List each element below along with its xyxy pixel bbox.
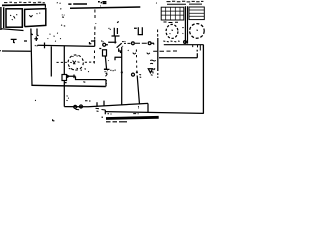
bus wire <box>70 7 140 8</box>
bottom wire <box>105 112 204 114</box>
wire <box>164 44 204 46</box>
wire step <box>90 40 95 46</box>
tube V2 envelope <box>68 55 83 70</box>
junction tick <box>64 82 66 84</box>
electrode V1 top circle <box>103 43 106 46</box>
terminal rail <box>2 4 46 7</box>
resistor R1 lower wire <box>63 81 65 107</box>
electrode V1 marks <box>106 61 109 85</box>
wire stub <box>102 110 106 117</box>
wire <box>0 50 31 53</box>
contact circle <box>132 42 135 45</box>
fuse table box A <box>161 7 184 20</box>
wire arrow <box>67 75 76 79</box>
header label text <box>167 1 204 4</box>
electrode V1 stem <box>104 56 110 69</box>
plug pin foot <box>31 34 33 35</box>
contact cup <box>133 53 136 54</box>
corner mark <box>53 119 55 121</box>
connector block X2 <box>25 9 46 27</box>
ground symbol <box>11 39 17 42</box>
terminal circle <box>80 105 83 108</box>
dash-dot heater wire <box>57 61 95 63</box>
electrode column dotted <box>135 50 138 73</box>
switch S1 <box>108 42 122 52</box>
dashed line under bar <box>106 121 127 123</box>
contact circle <box>132 73 135 76</box>
marks below box A <box>164 21 179 24</box>
label F-240 <box>98 2 106 4</box>
electrode column <box>137 76 139 105</box>
divider wire <box>185 6 187 43</box>
resistor R2 <box>103 50 107 56</box>
tube V2 scribbles <box>70 56 79 65</box>
wire <box>50 46 52 76</box>
connector X1 inner marks <box>10 14 17 20</box>
meter M2 <box>190 24 205 39</box>
lined box B <box>189 7 204 20</box>
dashed wire <box>157 30 159 79</box>
plug pin <box>37 29 39 36</box>
terminal circle <box>184 41 187 44</box>
scribbles <box>48 33 62 41</box>
wire <box>1 7 4 30</box>
box B lines <box>189 10 204 16</box>
dot marks <box>122 41 125 46</box>
wire corner <box>64 103 148 106</box>
wire <box>38 45 95 46</box>
heavy bar <box>106 117 159 118</box>
junction bullet <box>136 71 138 73</box>
dashes above box <box>69 68 108 82</box>
scribble marks <box>61 15 65 26</box>
terminal ticks <box>193 45 204 51</box>
marks above bus <box>66 96 90 101</box>
wire <box>157 38 159 71</box>
connector block X1 <box>6 9 22 27</box>
meter M1 marks <box>170 30 174 34</box>
stray dots <box>57 3 157 23</box>
wire column <box>121 47 123 106</box>
tick marks <box>138 75 141 109</box>
junction ticks <box>24 36 38 45</box>
dashed boundary wire <box>95 10 96 40</box>
step wire <box>147 103 149 112</box>
table A grid <box>162 8 184 20</box>
resistor R1 wire <box>63 46 65 75</box>
wire hook <box>151 43 154 44</box>
terminal circle <box>74 105 77 108</box>
wire <box>105 80 107 87</box>
contact cup <box>147 53 150 54</box>
electrode V1 <box>99 41 108 49</box>
del symbol <box>148 68 155 72</box>
capacitor C1 <box>109 28 120 44</box>
stray dot <box>34 99 37 101</box>
resistor R1 <box>62 75 67 81</box>
meter M1 <box>166 24 178 38</box>
squiggle marks <box>150 60 156 75</box>
wire <box>1 29 24 31</box>
dash-dot wire <box>153 50 177 52</box>
connector X2 inner marks <box>29 13 40 17</box>
contact circle <box>148 42 151 45</box>
right box edge <box>202 45 204 114</box>
dashed wire <box>93 51 95 64</box>
wire <box>159 50 197 58</box>
junction ticks <box>97 101 104 107</box>
wire <box>31 29 32 87</box>
junction bullet <box>121 71 123 73</box>
bus wire <box>68 3 87 5</box>
crystal Y1 <box>134 27 143 34</box>
label marks under M1 <box>163 40 179 43</box>
junction tick <box>44 43 46 49</box>
terminal strip label text <box>4 1 45 4</box>
wire <box>76 77 107 80</box>
dashes below wire <box>108 113 139 115</box>
bus wire <box>32 85 106 86</box>
meter M2 marks <box>182 28 198 34</box>
dash-dot wire <box>124 42 147 44</box>
marks below bus <box>76 108 106 111</box>
contact tick <box>110 50 128 71</box>
